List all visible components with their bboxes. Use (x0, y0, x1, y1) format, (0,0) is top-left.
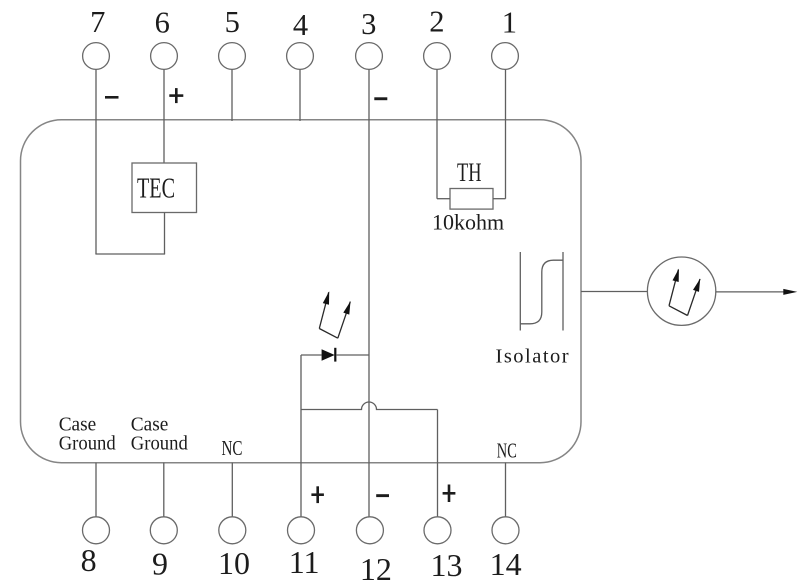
plus label pin 13 (443, 485, 456, 503)
thermistor right lead (493, 198, 506, 200)
pin 6 wire into TEC (163, 70, 165, 164)
svg-text:3: 3 (361, 7, 376, 41)
pin 2 circle (424, 43, 451, 70)
laser diode LD cathode wire (336, 354, 369, 356)
minus label pin 7 (105, 96, 119, 99)
svg-text:12: 12 (360, 551, 392, 584)
pin 3 circle (356, 43, 383, 70)
pin 3 / pin 12 common wire (368, 70, 370, 518)
pin 4 circle (287, 43, 314, 70)
thermistor TH body (450, 189, 493, 210)
output lens circle (647, 257, 715, 325)
pin 11 circle (288, 517, 315, 544)
pin 7 circle (83, 43, 110, 70)
minus label pin 3 (374, 97, 387, 100)
svg-text:10kohm: 10kohm (432, 210, 504, 235)
svg-text:6: 6 (155, 5, 170, 39)
pin 10 circle (219, 517, 246, 544)
TEC bottom wire (164, 213, 166, 255)
svg-text:10: 10 (218, 545, 250, 581)
pin 13 circle (424, 517, 451, 544)
output arrowhead (783, 289, 797, 295)
isolator left bar (519, 252, 521, 331)
svg-text:8: 8 (81, 542, 97, 578)
pin 2 wire (436, 70, 438, 199)
pin 11 riser wire (300, 355, 302, 517)
svg-text:5: 5 (225, 5, 240, 39)
pin 8 circle (83, 517, 110, 544)
svg-text:7: 7 (90, 5, 105, 39)
pin 13 riser wire (437, 410, 439, 518)
package outline (21, 120, 582, 463)
laser diode LD triangle (322, 349, 335, 361)
pin 14 circle (492, 517, 519, 544)
svg-text:1: 1 (502, 6, 517, 40)
output fiber wire right (716, 291, 790, 293)
pin 1 circle (492, 43, 519, 70)
pin 9 circle (150, 517, 177, 544)
TEC loop horizontal wire (95, 253, 165, 255)
pin 5 wire (231, 70, 233, 122)
svg-text:Ground: Ground (131, 433, 188, 455)
svg-text:13: 13 (431, 547, 463, 583)
svg-text:NC: NC (497, 439, 517, 463)
isolator step curve (520, 260, 563, 324)
wire pin11 node to pin13 with hop (301, 402, 438, 409)
svg-text:TH: TH (457, 158, 482, 187)
svg-text:4: 4 (293, 8, 308, 42)
pin 14 wire (505, 463, 507, 517)
output fiber wire left (581, 291, 648, 293)
pin 5 circle (219, 43, 246, 70)
svg-text:14: 14 (490, 546, 522, 582)
laser diode LD cathode bar (334, 348, 336, 362)
isolator right bar (562, 252, 564, 331)
svg-text:9: 9 (152, 546, 168, 582)
pin 1 wire (505, 70, 507, 199)
TEC box (132, 163, 197, 213)
pin 8 wire (95, 463, 97, 517)
plus label pin 11 (311, 486, 324, 503)
svg-text:TEC: TEC (137, 173, 175, 205)
laser diode LD anode wire (301, 354, 322, 356)
svg-text:2: 2 (429, 4, 444, 38)
pin 9 wire (163, 463, 165, 517)
svg-text:Ground: Ground (59, 433, 116, 455)
svg-text:11: 11 (289, 544, 320, 580)
pin 6 circle (151, 43, 178, 70)
svg-text:NC: NC (222, 436, 243, 460)
pin 7 wire (95, 70, 97, 255)
output emission arrows (669, 270, 700, 316)
minus label pin 12 (376, 494, 389, 497)
pin 12 circle (356, 517, 383, 544)
pin 10 wire (231, 463, 233, 517)
laser diode LD emission arrows (319, 292, 350, 338)
svg-text:Isolator: Isolator (496, 346, 571, 368)
pin 4 wire (299, 70, 301, 122)
plus label pin 6 (169, 88, 183, 103)
thermistor left lead (437, 198, 450, 200)
